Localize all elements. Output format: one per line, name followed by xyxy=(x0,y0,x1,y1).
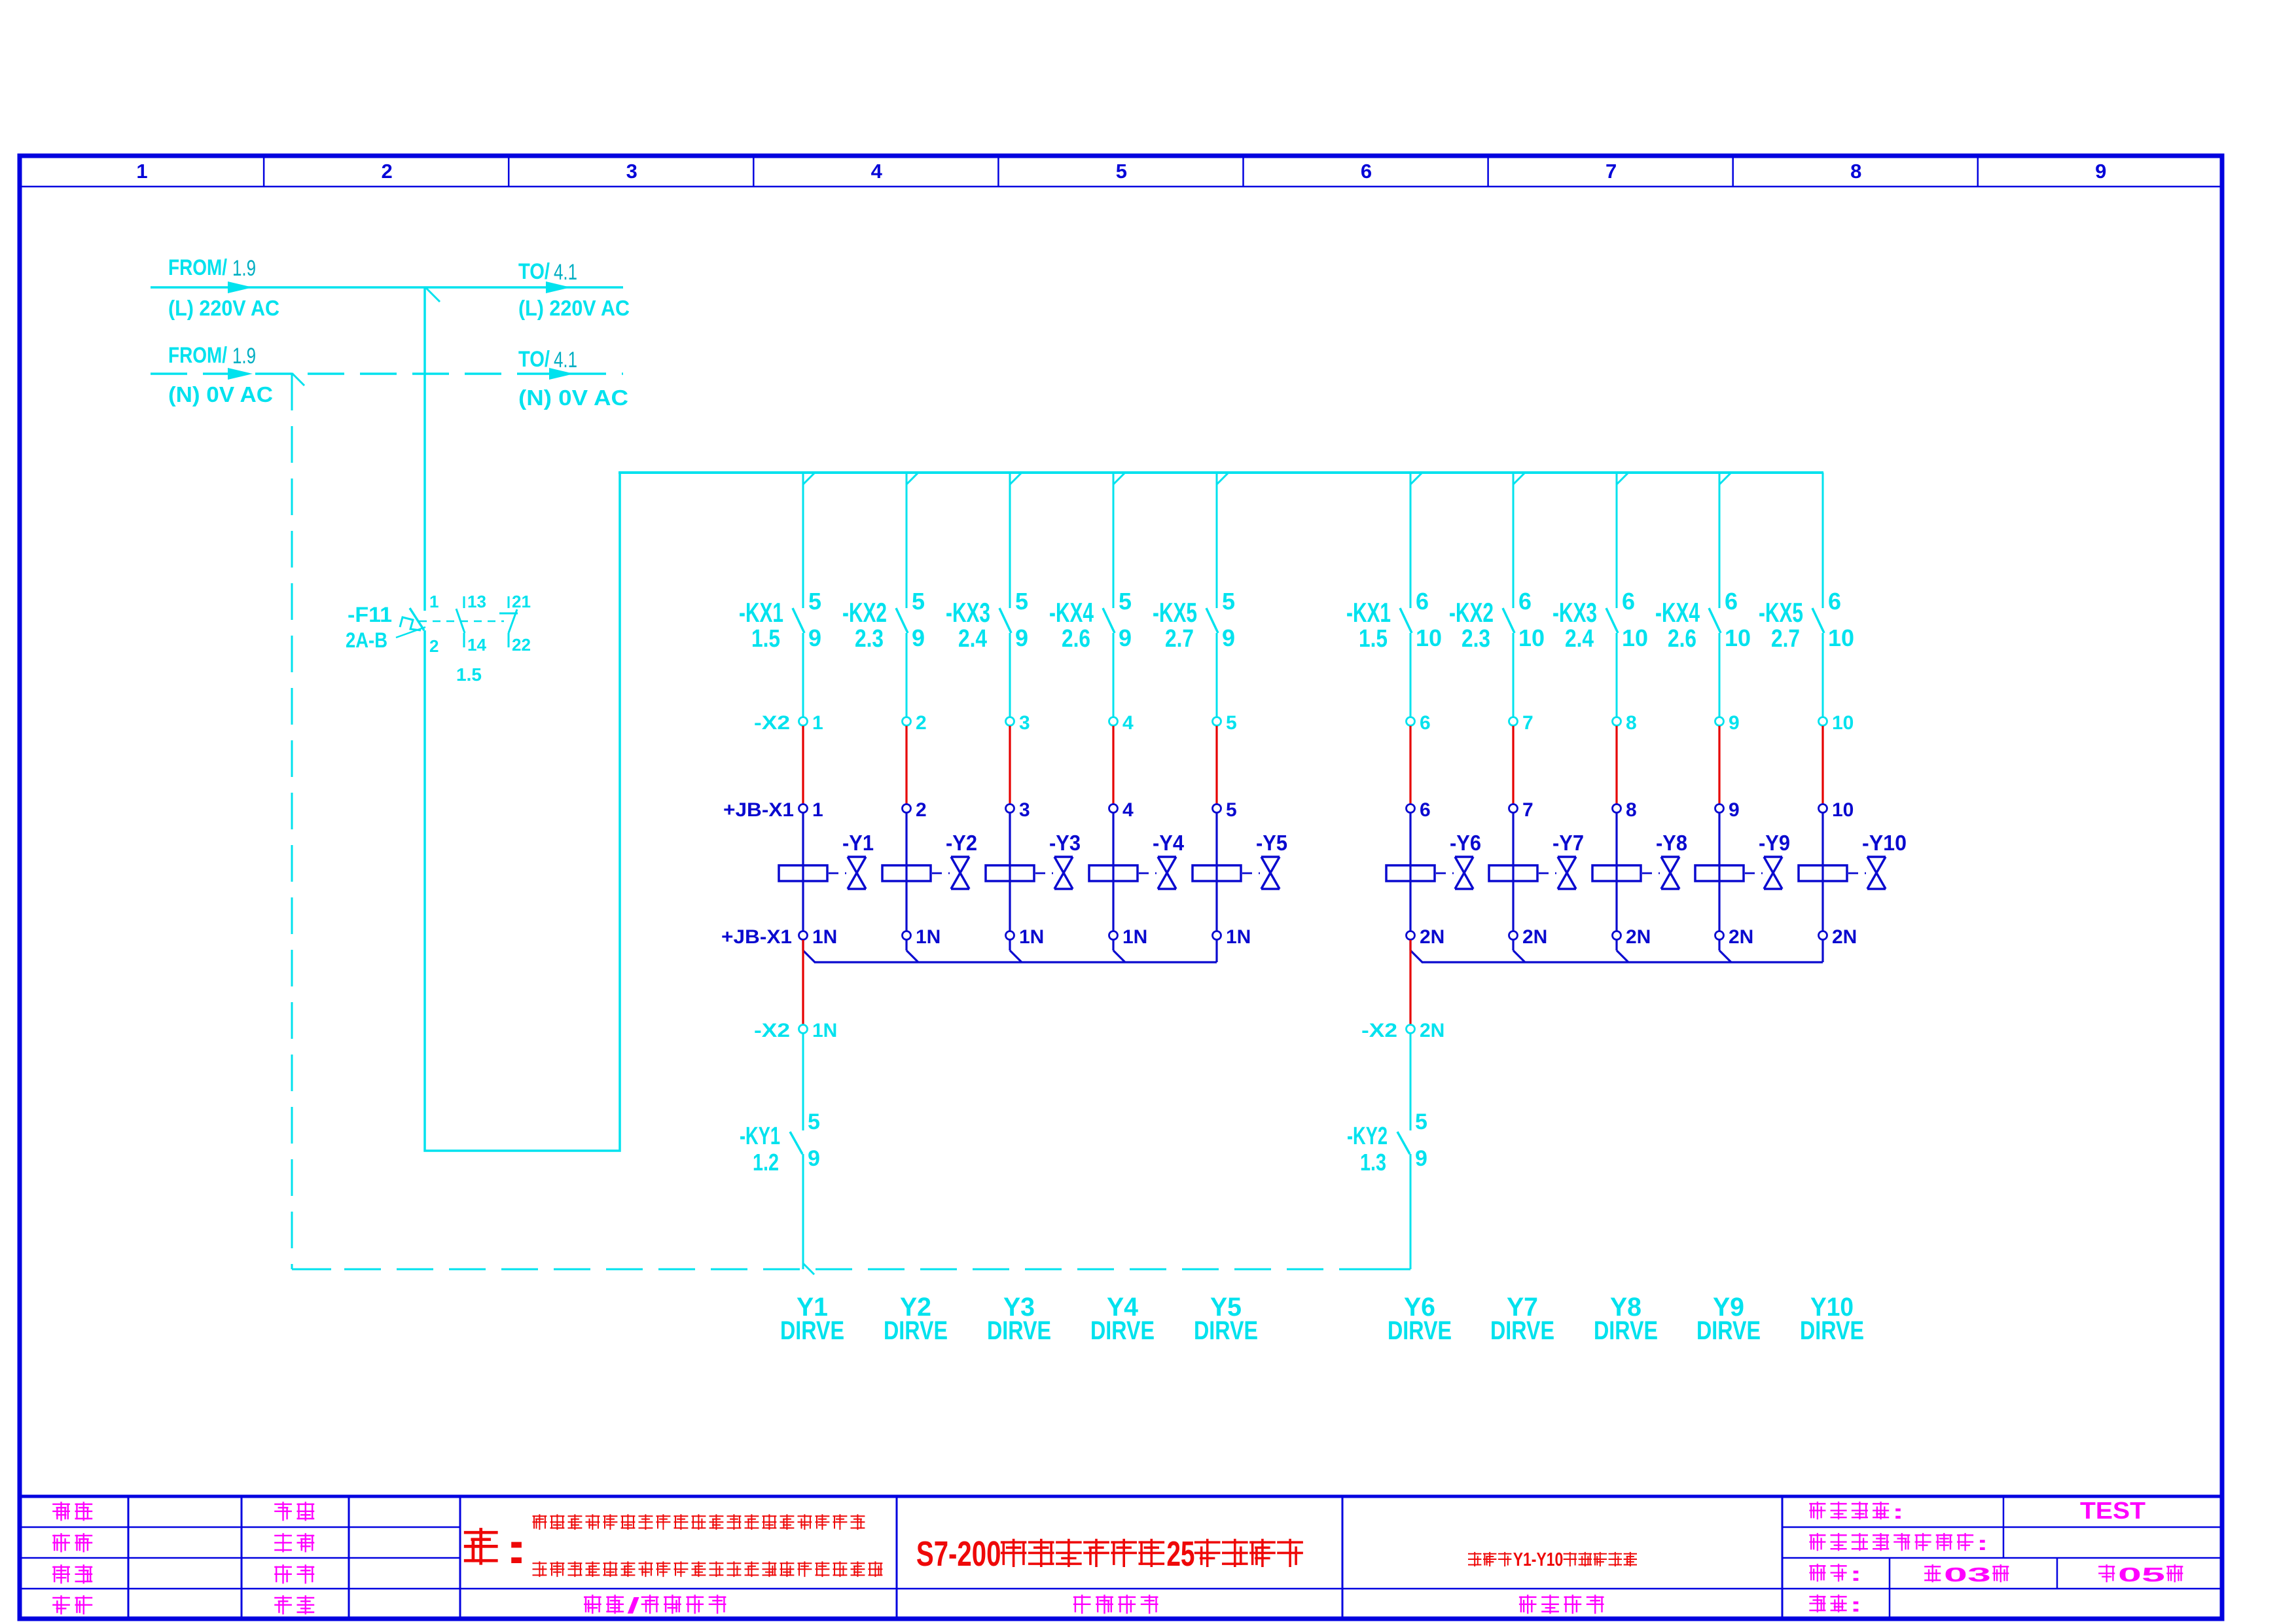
svg-text:2.7: 2.7 xyxy=(1771,625,1800,653)
svg-text:9: 9 xyxy=(1119,624,1132,651)
wire JB-X1:2N to return bus, branch 7 xyxy=(1513,940,1525,962)
wire coil Y8 to terminal JB-X1:2N xyxy=(1615,881,1617,931)
svg-text:2N: 2N xyxy=(1522,926,1547,948)
terminal X2:2 xyxy=(903,712,927,734)
node Y8 DIRVE label xyxy=(1594,1293,1658,1345)
contact -KX1 (1.5) pins 6/10 branch 6 xyxy=(1346,588,1442,653)
svg-text:-Y2: -Y2 xyxy=(946,831,977,855)
svg-text:9: 9 xyxy=(1729,799,1740,821)
svg-text:7: 7 xyxy=(1522,712,1534,734)
solenoid valve Y7 coil xyxy=(1489,865,1537,881)
svg-text:3: 3 xyxy=(1019,712,1030,734)
contact -KX1 (1.5) pins 5/9 branch 1 xyxy=(739,588,821,653)
wire contact to terminal X2:10 xyxy=(1822,633,1824,717)
svg-text:-Y7: -Y7 xyxy=(1552,831,1584,855)
wire branch 1 drop from bus xyxy=(803,473,815,608)
solenoid valve Y5 valve symbol xyxy=(1242,831,1287,889)
svg-text:DIRVE: DIRVE xyxy=(1594,1316,1658,1345)
svg-text:6: 6 xyxy=(1361,160,1372,183)
svg-text:6: 6 xyxy=(1420,799,1431,821)
svg-text:3: 3 xyxy=(626,160,637,183)
terminal JB-X1:5 xyxy=(1213,799,1237,821)
contact -KX4 (2.6) pins 5/9 branch 4 xyxy=(1049,588,1132,653)
wire cable (red) X2:8 to JB-X1:8 xyxy=(1615,726,1617,804)
svg-text:2: 2 xyxy=(916,712,927,734)
wire JB-X1:9 to coil Y9 xyxy=(1718,813,1720,866)
terminal JB-X1:2 xyxy=(903,799,927,821)
svg-text:4.1: 4.1 xyxy=(554,348,577,372)
terminal JB-X1:1N branch 5 xyxy=(1213,926,1251,948)
solenoid valve Y2 valve symbol xyxy=(932,831,977,889)
contact -KY1 (1.2) pins 5/9 xyxy=(740,1110,820,1176)
svg-text::: : xyxy=(1892,1500,1904,1523)
svg-text:2.7: 2.7 xyxy=(1165,625,1194,653)
wire branch 3 drop from bus xyxy=(1010,473,1022,608)
svg-text::: : xyxy=(1850,1593,1861,1616)
svg-text:-KX4: -KX4 xyxy=(1049,597,1094,628)
wire cable (red) X2:9 to JB-X1:9 xyxy=(1718,726,1720,804)
svg-text:25: 25 xyxy=(1166,1534,1194,1574)
equipment number label xyxy=(1810,1500,1904,1523)
wire JB-X1:2N to return bus, branch 10 xyxy=(1821,940,1823,962)
contact -KX5 (2.7) pins 5/9 branch 5 xyxy=(1153,588,1235,653)
svg-text:-X2: -X2 xyxy=(1361,1020,1397,1041)
svg-text:TO/: TO/ xyxy=(518,259,550,284)
terminal JB-X1:1N branch 2 xyxy=(903,926,941,948)
wire L line xyxy=(151,281,623,293)
wire return bus left group (1N) xyxy=(814,961,1217,963)
svg-text:6: 6 xyxy=(1420,712,1431,734)
node Y7 DIRVE label xyxy=(1490,1293,1554,1345)
wire contact to terminal X2:4 xyxy=(1113,633,1115,717)
terminal JB-X1:2N branch 6 xyxy=(1407,926,1445,948)
svg-text:/: / xyxy=(627,1593,639,1617)
wire JB-X1:10 to coil Y10 xyxy=(1821,813,1823,866)
svg-text:13: 13 xyxy=(467,592,486,611)
column header numbers 1-9 xyxy=(136,160,2106,183)
svg-text:-Y1: -Y1 xyxy=(842,831,874,855)
terminal JB-X1:2N branch 7 xyxy=(1509,926,1548,948)
contact -KX3 (2.4) pins 5/9 branch 3 xyxy=(946,588,1028,653)
svg-text:2.3: 2.3 xyxy=(1462,625,1490,653)
svg-text:10: 10 xyxy=(1828,624,1854,651)
svg-text:21: 21 xyxy=(512,592,531,611)
drawing number label xyxy=(1810,1593,1862,1616)
wire N line (dashed) xyxy=(151,368,623,380)
total pages xyxy=(2099,1563,2182,1586)
svg-text:9: 9 xyxy=(2095,160,2106,183)
svg-text:2.3: 2.3 xyxy=(855,625,884,653)
wire contact to terminal X2:1 xyxy=(802,633,804,717)
svg-text:8: 8 xyxy=(1626,712,1637,734)
svg-text:4: 4 xyxy=(1122,799,1134,821)
terminal X2:5 xyxy=(1213,712,1237,734)
terminal JB-X1:8 xyxy=(1613,799,1637,821)
terminal JB-X1:4 xyxy=(1109,799,1134,821)
svg-text:-F11: -F11 xyxy=(348,603,392,626)
svg-text:9: 9 xyxy=(912,624,925,651)
svg-text:10: 10 xyxy=(1518,624,1545,651)
svg-text:-Y5: -Y5 xyxy=(1256,831,1287,855)
wire JB-X1:2 to coil Y2 xyxy=(905,813,907,866)
svg-text:2.4: 2.4 xyxy=(1565,625,1594,653)
wire cable (red) X2:4 to JB-X1:4 xyxy=(1112,726,1114,804)
svg-text:S7-200: S7-200 xyxy=(916,1534,1001,1574)
svg-text:DIRVE: DIRVE xyxy=(1090,1316,1155,1345)
contact -KX2 (2.3) pins 6/10 branch 7 xyxy=(1449,588,1545,653)
wire cable (red) X2:10 to JB-X1:10 xyxy=(1821,726,1823,804)
svg-text:9: 9 xyxy=(808,624,821,651)
svg-text:4: 4 xyxy=(871,160,883,183)
wire JB-X1:4 to coil Y4 xyxy=(1112,813,1114,866)
page label xyxy=(1810,1562,1862,1585)
svg-text:6: 6 xyxy=(1725,588,1738,615)
wire JB-X1:8 to coil Y8 xyxy=(1615,813,1617,866)
wire coil Y10 to terminal JB-X1:2N xyxy=(1821,881,1823,931)
svg-text:1: 1 xyxy=(429,592,439,611)
terminal X2:1 xyxy=(754,712,823,734)
wire cable (red) X2:5 to JB-X1:5 xyxy=(1215,726,1217,804)
svg-text:-KX3: -KX3 xyxy=(946,597,990,628)
node Y9 DIRVE label xyxy=(1696,1293,1761,1345)
svg-text:8: 8 xyxy=(1626,799,1637,821)
solenoid valve Y5 coil xyxy=(1193,865,1241,881)
svg-text:2: 2 xyxy=(381,160,392,183)
wire cable (red) X2:2 to JB-X1:2 xyxy=(905,726,907,804)
svg-text:DIRVE: DIRVE xyxy=(780,1316,844,1345)
terminal X2:10 xyxy=(1819,712,1854,734)
svg-text:9: 9 xyxy=(1415,1146,1427,1171)
project name cell xyxy=(1074,1595,1157,1613)
svg-text:9: 9 xyxy=(1222,624,1235,651)
svg-text:(N) 0V AC: (N) 0V AC xyxy=(518,386,628,410)
svg-text:14: 14 xyxy=(467,635,486,655)
wire branch 7 drop from bus xyxy=(1513,473,1525,608)
wire JB-X1:7 to coil Y7 xyxy=(1512,813,1514,866)
terminal X2:9 xyxy=(1715,712,1740,734)
terminal JB-X1:6 xyxy=(1407,799,1431,821)
wire branch 5 drop from bus xyxy=(1217,473,1229,608)
svg-text:DIRVE: DIRVE xyxy=(1696,1316,1761,1345)
svg-text:DIRVE: DIRVE xyxy=(884,1316,948,1345)
svg-text:1N: 1N xyxy=(1122,926,1147,948)
svg-text::: : xyxy=(1977,1532,1988,1555)
solenoid valve Y7 valve symbol xyxy=(1539,831,1584,889)
wire branch 9 drop from bus xyxy=(1719,473,1731,608)
svg-text:1.9: 1.9 xyxy=(232,256,256,281)
svg-text:-Y6: -Y6 xyxy=(1450,831,1481,855)
svg-text:-X2: -X2 xyxy=(754,1020,790,1041)
solenoid valve Y2 coil xyxy=(882,865,931,881)
wire JB-X1:1N to return bus, branch 1 xyxy=(803,940,815,962)
wire X2:2N to contact -KY2 xyxy=(1410,1034,1412,1130)
svg-text:7: 7 xyxy=(1605,160,1617,183)
solenoid valve Y8 coil xyxy=(1592,865,1641,881)
svg-text:+JB-X1: +JB-X1 xyxy=(721,926,792,948)
svg-text:-KX2: -KX2 xyxy=(842,597,887,628)
terminal X2:3 xyxy=(1006,712,1030,734)
terminal X2:8 xyxy=(1613,712,1637,734)
wire cable (red) X2:3 to JB-X1:3 xyxy=(1009,726,1011,804)
svg-text:10: 10 xyxy=(1416,624,1442,651)
svg-text:5: 5 xyxy=(1415,1110,1427,1134)
svg-text:-Y9: -Y9 xyxy=(1759,831,1790,855)
wire JB-X1:2N to return bus, branch 9 xyxy=(1719,940,1731,962)
wire coil Y1 to terminal JB-X1:1N xyxy=(802,881,804,931)
node N 0V AC incoming (FROM/1.9) xyxy=(168,343,273,406)
wire contact to terminal X2:2 xyxy=(906,633,908,717)
svg-text:5: 5 xyxy=(808,1110,820,1134)
svg-text:9: 9 xyxy=(808,1146,820,1171)
wire branch 10 drop from bus xyxy=(1822,473,1824,608)
svg-text:1N: 1N xyxy=(1019,926,1044,948)
wire coil Y5 to terminal JB-X1:1N xyxy=(1215,881,1217,931)
svg-text:2N: 2N xyxy=(1420,1020,1444,1041)
svg-text:2N: 2N xyxy=(1832,926,1857,948)
svg-text:-KX1: -KX1 xyxy=(739,597,783,628)
svg-text:22: 22 xyxy=(512,635,531,655)
power position label xyxy=(1810,1532,1988,1555)
wire JB-X1:2N to return bus, branch 6 xyxy=(1410,940,1422,962)
sheet title S7-200 xyxy=(916,1534,1302,1574)
svg-text:10: 10 xyxy=(1832,712,1854,734)
wire contact to terminal X2:9 xyxy=(1719,633,1721,717)
svg-text:1.5: 1.5 xyxy=(456,664,482,685)
svg-text:10: 10 xyxy=(1725,624,1751,651)
svg-text:2.4: 2.4 xyxy=(958,625,987,653)
node Y6 DIRVE label xyxy=(1388,1293,1452,1345)
svg-text:2: 2 xyxy=(916,799,927,821)
svg-text:6: 6 xyxy=(1622,588,1635,615)
solenoid valve Y3 coil xyxy=(986,865,1034,881)
svg-text::: : xyxy=(1850,1562,1861,1585)
wire contact to terminal X2:6 xyxy=(1410,633,1412,717)
svg-text:9: 9 xyxy=(1015,624,1028,651)
note: color legend text xyxy=(465,1515,882,1576)
svg-text:-KY1: -KY1 xyxy=(740,1123,780,1150)
wire coil Y3 to terminal JB-X1:1N xyxy=(1009,881,1011,931)
solenoid valve Y10 coil xyxy=(1799,865,1847,881)
terminal JB-X1:2N branch 8 xyxy=(1613,926,1651,948)
wire cable (red) X2:6 to JB-X1:6 xyxy=(1409,726,1411,804)
svg-text:-KY2: -KY2 xyxy=(1347,1123,1388,1150)
wire cable (red) JB-X1:2N to X2:2N xyxy=(1409,940,1411,1025)
terminal X2:4 xyxy=(1109,712,1134,734)
wire JB-X1:1N to return bus, branch 3 xyxy=(1010,940,1022,962)
svg-text:FROM/: FROM/ xyxy=(168,255,227,280)
svg-text:DIRVE: DIRVE xyxy=(1194,1316,1258,1345)
terminal JB-X1:2N branch 9 xyxy=(1715,926,1754,948)
breaker F11 2A-B xyxy=(346,592,531,685)
terminal JB-X1:1 xyxy=(723,799,823,821)
svg-text:1.3: 1.3 xyxy=(1360,1149,1386,1176)
svg-text:6: 6 xyxy=(1416,588,1429,615)
contact -KX5 (2.7) pins 6/10 branch 10 xyxy=(1759,588,1854,653)
wire contact to terminal X2:7 xyxy=(1513,633,1515,717)
terminal X2:7 xyxy=(1509,712,1534,734)
svg-text:2.6: 2.6 xyxy=(1062,625,1090,653)
svg-text:03: 03 xyxy=(1944,1563,1991,1586)
svg-text:DIRVE: DIRVE xyxy=(1800,1316,1864,1345)
svg-text:05: 05 xyxy=(2118,1563,2165,1586)
wire JB-X1:5 to coil Y5 xyxy=(1215,813,1217,866)
wire X2:1N to contact -KY1 xyxy=(802,1034,804,1130)
svg-text:5: 5 xyxy=(1119,588,1132,615)
junction slash on N line xyxy=(292,373,304,386)
wire coil Y9 to terminal JB-X1:2N xyxy=(1718,881,1720,931)
terminal X2:1N xyxy=(754,1020,837,1041)
svg-text:5: 5 xyxy=(808,588,821,615)
solenoid valve Y8 valve symbol xyxy=(1642,831,1687,889)
svg-text:(L) 220V AC: (L) 220V AC xyxy=(518,296,630,320)
solenoid valve Y6 coil xyxy=(1386,865,1435,881)
terminal JB-X1:1N branch 3 xyxy=(1006,926,1045,948)
svg-text:2N: 2N xyxy=(1420,926,1444,948)
svg-text:6: 6 xyxy=(1518,588,1532,615)
svg-text:TO/: TO/ xyxy=(518,347,550,372)
svg-text:+JB-X1: +JB-X1 xyxy=(723,799,794,821)
terminal X2:2N xyxy=(1361,1020,1444,1041)
node Y4 DIRVE label xyxy=(1090,1293,1155,1345)
wire coil Y7 to terminal JB-X1:2N xyxy=(1512,881,1514,931)
terminal JB-X1:3 xyxy=(1006,799,1030,821)
svg-text:1N: 1N xyxy=(916,926,941,948)
svg-text:Y1-Y10: Y1-Y10 xyxy=(1513,1549,1564,1570)
wire coil Y2 to terminal JB-X1:1N xyxy=(905,881,907,931)
svg-text:2A-B: 2A-B xyxy=(346,628,387,652)
svg-text:5: 5 xyxy=(1116,160,1127,183)
wire contact to terminal X2:3 xyxy=(1009,633,1011,717)
svg-text:10: 10 xyxy=(1622,624,1648,651)
svg-text:10: 10 xyxy=(1832,799,1854,821)
svg-text:8: 8 xyxy=(1850,160,1861,183)
solenoid valve Y4 valve symbol xyxy=(1139,831,1185,889)
svg-text:2N: 2N xyxy=(1626,926,1651,948)
terminal JB-X1:1N branch 4 xyxy=(1109,926,1148,948)
svg-text:-KX4: -KX4 xyxy=(1655,597,1700,628)
terminal JB-X1:2N branch 10 xyxy=(1819,926,1857,948)
svg-text:-X2: -X2 xyxy=(754,712,790,734)
svg-text:1.5: 1.5 xyxy=(751,625,780,653)
terminal JB-X1:10 xyxy=(1819,799,1854,821)
solenoid valve Y1 valve symbol xyxy=(829,831,874,889)
svg-text:5: 5 xyxy=(1226,712,1237,734)
solenoid valve Y6 valve symbol xyxy=(1436,831,1481,889)
wire coil Y4 to terminal JB-X1:1N xyxy=(1112,881,1114,931)
solenoid valve Y10 valve symbol xyxy=(1848,831,1907,889)
svg-text:5: 5 xyxy=(1015,588,1028,615)
junction slash on L line xyxy=(425,287,440,302)
node N 0V AC outgoing (TO/4.1) xyxy=(518,347,628,410)
company name cell xyxy=(584,1593,725,1617)
TEST value xyxy=(2080,1497,2145,1524)
wire bottom N bus (dashed) xyxy=(292,1269,1410,1271)
sheet subtitle Y1-Y10 xyxy=(1469,1549,1636,1570)
title block row labels xyxy=(53,1502,314,1614)
wire contact to terminal X2:8 xyxy=(1616,633,1618,717)
svg-text:-KX5: -KX5 xyxy=(1153,597,1197,628)
wire cable (red) X2:1 to JB-X1:1 xyxy=(802,726,804,804)
svg-text:9: 9 xyxy=(1729,712,1740,734)
solenoid valve Y1 coil xyxy=(779,865,827,881)
wire JB-X1:2N to return bus, branch 8 xyxy=(1617,940,1628,962)
svg-text:-KX2: -KX2 xyxy=(1449,597,1494,628)
wire -KY2 to bottom N bus xyxy=(1410,1154,1412,1269)
svg-text:2N: 2N xyxy=(1729,926,1753,948)
svg-text:5: 5 xyxy=(912,588,925,615)
wire JB-X1:1N to return bus, branch 2 xyxy=(906,940,918,962)
svg-text:5: 5 xyxy=(1222,588,1235,615)
terminal JB-X1:1N branch 1 xyxy=(721,926,837,948)
junction slash KY1 at bottom bus xyxy=(803,1263,814,1274)
wire JB-X1:3 to coil Y3 xyxy=(1009,813,1011,866)
node Y3 DIRVE label xyxy=(987,1293,1051,1345)
solenoid valve Y9 valve symbol xyxy=(1745,831,1790,889)
contact -KX2 (2.3) pins 5/9 branch 2 xyxy=(842,588,925,653)
wire coil Y6 to terminal JB-X1:2N xyxy=(1409,881,1411,931)
svg-text:7: 7 xyxy=(1522,799,1534,821)
svg-text:4.1: 4.1 xyxy=(554,260,577,285)
page number xyxy=(1925,1563,2008,1586)
svg-text:-KX3: -KX3 xyxy=(1552,597,1597,628)
svg-text:DIRVE: DIRVE xyxy=(987,1316,1051,1345)
node Y5 DIRVE label xyxy=(1194,1293,1258,1345)
svg-text:DIRVE: DIRVE xyxy=(1490,1316,1554,1345)
wire branch 6 drop from bus xyxy=(1410,473,1422,608)
wire JB-X1:1N to return bus, branch 4 xyxy=(1113,940,1125,962)
wire -KY1 to bottom N bus xyxy=(802,1154,804,1269)
node Y10 DIRVE label xyxy=(1800,1293,1864,1345)
terminal JB-X1:7 xyxy=(1509,799,1534,821)
svg-text:TEST: TEST xyxy=(2080,1497,2145,1524)
contact -KX3 (2.4) pins 6/10 branch 8 xyxy=(1552,588,1648,653)
svg-text:-Y10: -Y10 xyxy=(1862,831,1907,855)
svg-text:1: 1 xyxy=(136,160,147,183)
svg-text:(N) 0V AC: (N) 0V AC xyxy=(168,382,273,406)
svg-text:1.9: 1.9 xyxy=(232,344,256,369)
wire cable (red) X2:7 to JB-X1:7 xyxy=(1512,726,1514,804)
svg-text:5: 5 xyxy=(1226,799,1237,821)
device name cell xyxy=(1520,1595,1603,1613)
svg-text:1N: 1N xyxy=(812,926,837,948)
wire branch 8 drop from bus xyxy=(1617,473,1628,608)
wire JB-X1:1N to return bus, branch 5 xyxy=(1215,940,1217,962)
svg-text:DIRVE: DIRVE xyxy=(1388,1316,1452,1345)
node L 220V AC outgoing (TO/4.1) xyxy=(518,259,630,320)
contact -KY2 (1.3) pins 5/9 xyxy=(1347,1110,1427,1176)
node Y1 DIRVE label xyxy=(780,1293,844,1345)
svg-text:-Y3: -Y3 xyxy=(1049,831,1081,855)
svg-text:1: 1 xyxy=(812,712,823,734)
wire cable (red) JB-X1:1N to X2:1N xyxy=(802,940,804,1025)
wire branch 4 drop from bus xyxy=(1113,473,1125,608)
node Y2 DIRVE label xyxy=(884,1293,948,1345)
wire N dashed vertical drop xyxy=(291,374,293,1269)
terminal JB-X1:9 xyxy=(1715,799,1740,821)
svg-text:2.6: 2.6 xyxy=(1668,625,1696,653)
svg-text:FROM/: FROM/ xyxy=(168,343,227,368)
svg-text:3: 3 xyxy=(1019,799,1030,821)
svg-text:1.2: 1.2 xyxy=(753,1149,779,1176)
wire breaker output U-link to bus xyxy=(425,474,620,1151)
wire return bus right group (2N) xyxy=(1422,961,1823,963)
svg-text:1N: 1N xyxy=(812,1020,837,1041)
wire contact to terminal X2:5 xyxy=(1216,633,1218,717)
node L 220V AC incoming (FROM/1.9) xyxy=(168,255,279,320)
svg-text:1: 1 xyxy=(812,799,823,821)
svg-text:4: 4 xyxy=(1122,712,1134,734)
svg-text:-Y4: -Y4 xyxy=(1153,831,1185,855)
